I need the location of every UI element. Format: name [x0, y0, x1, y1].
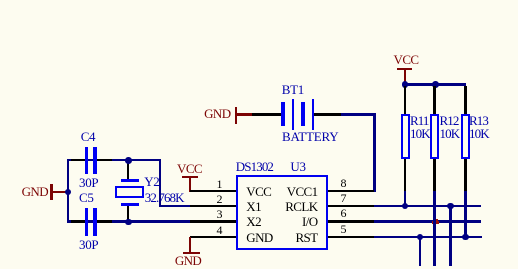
wire bottom of crystal loop (X2 net) — [67, 220, 191, 222]
wire crystal top to X1 (horizontal) — [159, 205, 191, 207]
label DS1302 — [236, 160, 273, 173]
pin number 8 — [341, 177, 347, 189]
junction dot (GND / left rail) — [65, 189, 72, 196]
capacitor C4 — [71, 159, 85, 161]
junction dot (VCC rail / R12) — [432, 81, 439, 88]
capacitor C5 — [71, 220, 85, 222]
label R13 — [469, 114, 488, 127]
pin name X2 — [246, 215, 261, 228]
junction dot (RST / drop wire) — [417, 234, 424, 241]
crystal Y2 — [127, 160, 129, 179]
label 10K (R12) — [440, 127, 460, 140]
wire RST net — [374, 236, 482, 238]
label 10K (R11) — [410, 127, 430, 140]
label C5 — [79, 191, 94, 204]
pin 5 wire — [328, 236, 374, 238]
pin 2 wire — [190, 205, 236, 207]
junction dot (RCLK / drop wire) — [447, 203, 454, 210]
wire drop from RCLK net — [449, 206, 451, 266]
power VCC (top right) — [393, 53, 420, 66]
pin 8 wire — [328, 190, 374, 192]
pin 1 wire — [190, 190, 236, 192]
label Y2 — [144, 175, 159, 188]
pin number 7 — [341, 192, 347, 204]
pin 6 wire — [328, 220, 374, 222]
pin number 2 — [210, 193, 223, 205]
junction dot (RCLK / R11) — [402, 203, 409, 210]
wire I/O net — [374, 220, 482, 222]
label U3 — [290, 160, 305, 173]
label R11 — [410, 114, 429, 127]
junction dot (VCC rail / R11) — [402, 81, 409, 88]
ground GND (left) — [50, 184, 53, 201]
pin name X1 — [246, 200, 261, 213]
resistor R11 — [404, 86, 406, 114]
wire top of crystal loop — [67, 159, 161, 161]
resistor R13 — [464, 86, 466, 114]
pin number 6 — [341, 207, 347, 219]
pin name VCC1 — [267, 185, 318, 198]
junction dot (crystal top) — [125, 157, 132, 164]
pin name RCLK — [267, 200, 318, 213]
wire drop from RST net — [419, 237, 421, 266]
ground GND (battery) — [204, 107, 231, 120]
pin number 4 — [210, 224, 223, 236]
pin 3 wire — [190, 220, 236, 222]
junction dot (RST / R13) — [462, 234, 469, 241]
wire RCLK net — [374, 205, 482, 207]
IC U3 DS1302 body — [236, 175, 328, 251]
battery BT1 — [252, 113, 281, 115]
pin number 1 — [210, 178, 223, 190]
wire battery to VCC1 (vertical) — [373, 113, 375, 192]
wire battery to VCC1 (horizontal) — [341, 113, 376, 115]
label C4 — [81, 130, 96, 143]
label 10K (R13) — [469, 127, 489, 140]
label 30P (C5 value) — [79, 238, 98, 251]
pin 7 wire — [328, 205, 374, 207]
label BT1 — [282, 83, 304, 96]
ground GND (below pin 4) — [189, 237, 191, 252]
label R12 — [440, 114, 459, 127]
pin name VCC — [246, 185, 271, 198]
label 32.768K — [145, 191, 184, 204]
label 30P (C4 value) — [79, 176, 98, 189]
pin name RST — [267, 231, 318, 244]
junction dot (crystal bottom) — [125, 219, 132, 226]
wire crystal top to X1 (vertical) — [159, 159, 161, 207]
pin 4 wire — [190, 236, 237, 238]
pin number 5 — [341, 223, 347, 235]
wire VCC rail — [404, 83, 466, 85]
pin name GND — [246, 231, 272, 244]
pin name I/O — [267, 215, 318, 228]
power VCC (left) — [177, 162, 203, 175]
wire left vertical — [67, 159, 69, 223]
label BATTERY — [282, 130, 338, 143]
ERC marker (red cross at R12 / I-O crossing) — [432, 221, 439, 224]
pin number 3 — [210, 208, 223, 220]
resistor R12 — [433, 86, 435, 114]
